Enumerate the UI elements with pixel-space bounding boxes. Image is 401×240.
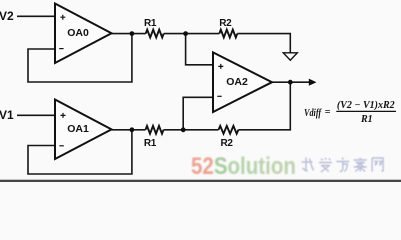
svg-text:Vdiff: Vdiff <box>304 108 322 119</box>
svg-text:OA1: OA1 <box>67 123 89 135</box>
svg-text:OA2: OA2 <box>226 76 248 88</box>
svg-text:OA0: OA0 <box>67 27 89 39</box>
svg-text:R1: R1 <box>144 138 157 149</box>
svg-text:R1: R1 <box>144 18 157 29</box>
svg-text:V1: V1 <box>0 108 14 122</box>
svg-text:V2: V2 <box>0 9 14 23</box>
svg-text:R2: R2 <box>219 18 232 29</box>
svg-text:R1: R1 <box>360 114 373 125</box>
svg-text:=: = <box>325 107 331 118</box>
svg-text:R2: R2 <box>221 138 234 149</box>
svg-text:(V2 − V1)xR2: (V2 − V1)xR2 <box>337 100 395 111</box>
